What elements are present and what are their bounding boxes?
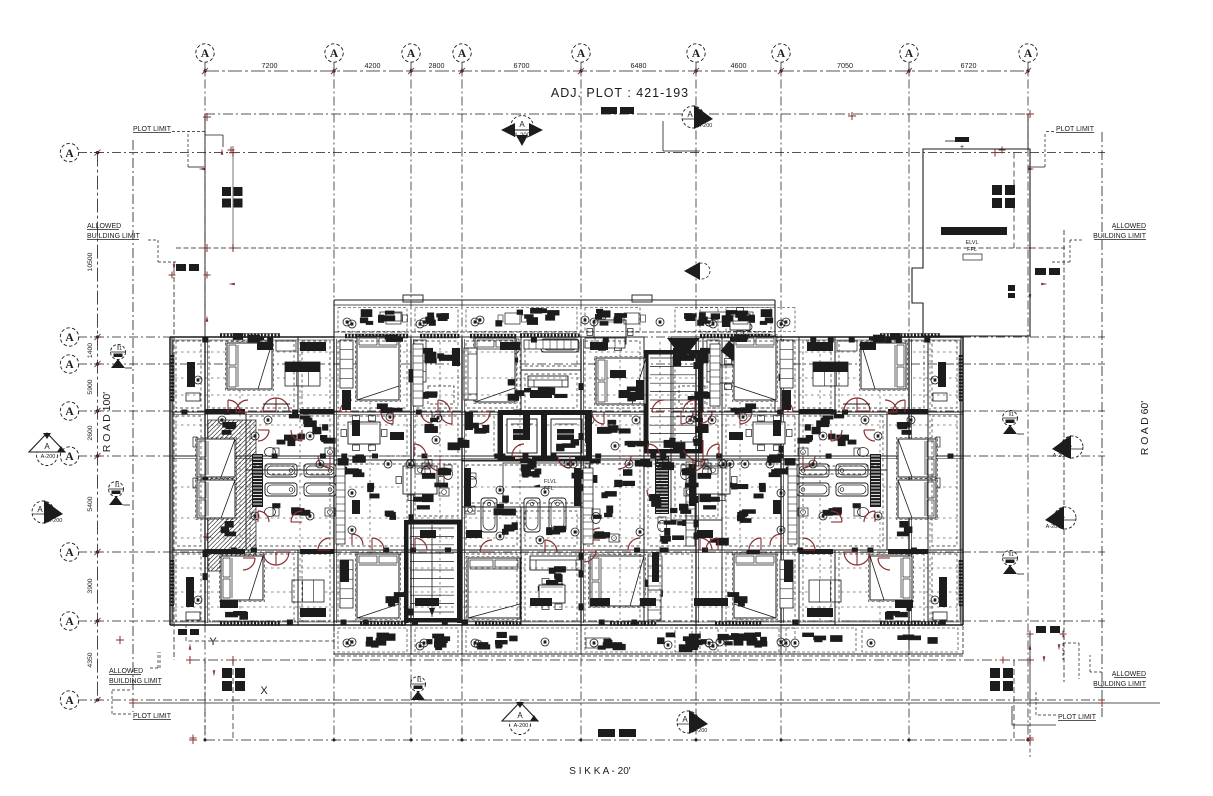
svg-text:1: 1 — [1011, 412, 1014, 418]
svg-text:A: A — [44, 442, 50, 451]
svg-text:FFL: FFL — [967, 247, 977, 253]
svg-text:2800: 2800 — [429, 61, 445, 70]
svg-text:Y: Y — [209, 636, 217, 648]
svg-text:A: A — [65, 359, 74, 371]
svg-text:PLOT LIMIT: PLOT LIMIT — [133, 126, 172, 133]
svg-text:1: 1 — [1011, 552, 1014, 558]
svg-text:A: A — [519, 120, 525, 129]
svg-text:A: A — [777, 48, 786, 60]
svg-text:A: A — [65, 616, 74, 628]
svg-text:4200: 4200 — [365, 61, 381, 70]
svg-text:A: A — [517, 711, 523, 720]
svg-text:PLOT LIMIT: PLOT LIMIT — [1056, 126, 1095, 133]
svg-text:A: A — [577, 48, 586, 60]
svg-text:6700: 6700 — [514, 61, 530, 70]
svg-text:A: A — [682, 715, 688, 724]
svg-text:BUILDING LIMIT: BUILDING LIMIT — [87, 233, 141, 240]
svg-text:A: A — [905, 48, 914, 60]
svg-text:BUILDING LIMIT: BUILDING LIMIT — [1093, 233, 1147, 240]
svg-text:A: A — [692, 48, 701, 60]
svg-text:A-200: A-200 — [1046, 524, 1061, 530]
svg-text:A: A — [65, 695, 74, 707]
svg-text:10500: 10500 — [87, 252, 94, 271]
svg-text:A: A — [407, 48, 416, 60]
svg-text:A: A — [65, 332, 74, 344]
svg-text:ALLOWED: ALLOWED — [1112, 223, 1146, 230]
svg-text:ELVL: ELVL — [965, 240, 978, 246]
svg-text:ALLOWED: ALLOWED — [1112, 671, 1146, 678]
svg-text:A-200: A-200 — [41, 454, 56, 460]
svg-text:X: X — [260, 685, 268, 697]
svg-text:6720: 6720 — [961, 61, 977, 70]
svg-text:5400: 5400 — [87, 496, 94, 511]
svg-text:A: A — [65, 451, 74, 463]
svg-text:A: A — [65, 406, 74, 418]
svg-text:A: A — [37, 505, 43, 514]
svg-text:A-200: A-200 — [693, 728, 708, 734]
svg-text:BUILDING LIMIT: BUILDING LIMIT — [1093, 681, 1147, 688]
svg-text:R O A D 100': R O A D 100' — [101, 392, 113, 452]
svg-text:A-200: A-200 — [48, 518, 63, 524]
svg-text:2600: 2600 — [87, 425, 94, 440]
svg-text:4350: 4350 — [87, 652, 94, 667]
svg-text:+: + — [960, 144, 964, 151]
svg-text:PLOT LIMIT: PLOT LIMIT — [133, 713, 172, 720]
svg-text:R O A D 60': R O A D 60' — [1139, 401, 1151, 456]
svg-text:A: A — [687, 110, 693, 119]
svg-text:A-200: A-200 — [514, 133, 531, 139]
svg-text:S I K K A - 20': S I K K A - 20' — [569, 766, 630, 777]
svg-text:A: A — [65, 547, 74, 559]
svg-text:A: A — [65, 148, 74, 160]
svg-text:1: 1 — [119, 346, 122, 352]
svg-text:PLOT LIMIT: PLOT LIMIT — [1058, 714, 1097, 721]
svg-text:ADJ. PLOT : 421-193: ADJ. PLOT : 421-193 — [551, 86, 689, 100]
svg-text:BUILDING LIMIT: BUILDING LIMIT — [109, 678, 163, 685]
svg-text:1400: 1400 — [87, 343, 94, 358]
svg-text:ALLOWED: ALLOWED — [109, 668, 143, 675]
svg-text:4600: 4600 — [731, 61, 747, 70]
svg-text:6480: 6480 — [631, 61, 647, 70]
svg-text:7050: 7050 — [837, 61, 853, 70]
svg-text:A: A — [458, 48, 467, 60]
svg-text:1: 1 — [117, 483, 120, 489]
svg-text:5900: 5900 — [87, 379, 94, 394]
svg-text:1: 1 — [419, 678, 422, 684]
svg-text:A-200: A-200 — [514, 723, 529, 729]
svg-text:A: A — [330, 48, 339, 60]
svg-text:3900: 3900 — [87, 578, 94, 593]
svg-text:A-200: A-200 — [1053, 453, 1068, 459]
svg-text:ALLOWED: ALLOWED — [87, 223, 121, 230]
svg-text:A: A — [1024, 48, 1033, 60]
svg-text:7200: 7200 — [262, 61, 278, 70]
svg-text:A: A — [201, 48, 210, 60]
svg-text:FLVL: FLVL — [544, 479, 557, 485]
svg-text:A-200: A-200 — [698, 123, 713, 129]
